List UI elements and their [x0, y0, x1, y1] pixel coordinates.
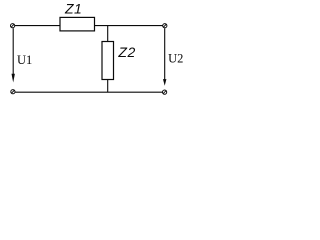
wire Z2 branch lower: [107, 80, 109, 93]
wire top-right segment: [95, 25, 163, 27]
impedance Z2: [102, 42, 114, 80]
terminal port 2' bottom-right: [163, 90, 167, 94]
wire bottom rail: [15, 91, 162, 93]
wire top-left segment: [15, 25, 60, 27]
voltage arrow U1: [12, 28, 15, 82]
svg-text:Z1: Z1: [64, 0, 82, 16]
svg-text:U1: U1: [17, 53, 32, 67]
terminal port 1' bottom-left: [11, 90, 15, 94]
svg-text:Z2: Z2: [117, 44, 135, 60]
impedance Z1: [60, 17, 95, 31]
terminal port 1 top-left: [11, 24, 15, 28]
voltage arrow U2: [163, 28, 166, 86]
wire Z2 branch upper: [107, 26, 109, 42]
terminal port 2 top-right: [163, 24, 167, 28]
svg-text:U2: U2: [168, 51, 183, 65]
